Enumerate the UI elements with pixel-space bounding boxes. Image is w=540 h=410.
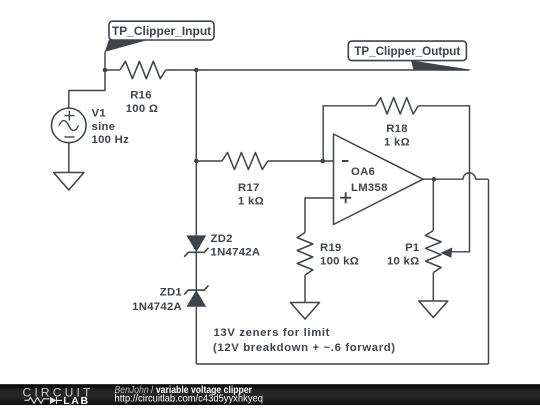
test point flag TP_Clipper_Input tail [105, 40, 149, 52]
svg-text:1N4742A: 1N4742A [211, 247, 261, 259]
wire top net to output flag [196, 69, 469, 71]
wire node to V1 top [69, 70, 105, 108]
wire R18 left lead down to inverting node [323, 106, 375, 161]
wire R16 right lead [166, 69, 197, 71]
svg-text:1 kΩ: 1 kΩ [238, 196, 264, 208]
wire R18 right lead down to P1 wiper [418, 106, 469, 252]
svg-text:OA6: OA6 [351, 166, 375, 178]
wire clip node down to ZD2 [195, 70, 197, 235]
wire ZD1 to bottom rail [195, 307, 197, 364]
svg-text:P1: P1 [405, 242, 419, 254]
potentiometer P1 wiper arrow [440, 248, 452, 258]
zener diode ZD2 cathode bar [184, 248, 208, 257]
resistor R18 [376, 98, 419, 114]
svg-text:R19: R19 [320, 242, 342, 254]
svg-text:R18: R18 [386, 123, 408, 135]
resistor R17 [222, 153, 268, 170]
voltage source V1 [52, 108, 87, 143]
svg-text:sine: sine [92, 121, 116, 133]
wire R17 right lead to inverting input [268, 160, 334, 162]
resistor R16 [120, 61, 166, 78]
wire non-inverting input to R19 [305, 198, 334, 233]
svg-text:100 Hz: 100 Hz [92, 134, 130, 146]
test point flag TP_Clipper_Input box [109, 21, 214, 40]
junction dot node op-amp output junction [432, 177, 437, 182]
ground under V1 [54, 173, 84, 191]
junction dot node input flag / R16 [103, 68, 108, 73]
wire op-amp output with hop over feedback [423, 173, 489, 179]
svg-text:V1: V1 [92, 107, 106, 119]
svg-text:TP_Clipper_Input: TP_Clipper_Input [112, 24, 211, 38]
svg-text:1N4742A: 1N4742A [132, 301, 182, 313]
svg-text:100 kΩ: 100 kΩ [320, 256, 359, 268]
svg-text:R17: R17 [238, 182, 260, 194]
CircuitLab logo resistor squiggle [25, 397, 50, 403]
V1 sine waveform mark [59, 121, 79, 131]
svg-text:LAB: LAB [63, 395, 89, 405]
svg-text:ZD2: ZD2 [211, 233, 233, 245]
wire right rail up to op-amp output [488, 179, 490, 364]
junction dot node inverting input junction [320, 159, 325, 164]
op-amp non-inverting input mark [340, 192, 351, 203]
svg-text:http://circuitlab.com/c43d5yyx: http://circuitlab.com/c43d5yyxhkyeq [115, 394, 264, 405]
potentiometer P1 [426, 231, 442, 273]
wire P1 top lead from output node [432, 179, 434, 230]
zener diode ZD2 body [186, 235, 206, 252]
wire R16 left lead [105, 69, 120, 71]
svg-text:(12V breakdown + ~.6 forward): (12V breakdown + ~.6 forward) [213, 342, 396, 354]
test point flag TP_Clipper_Output box [348, 41, 466, 61]
ground under R19 [291, 303, 320, 320]
V1 minus terminal mark [64, 136, 74, 138]
svg-text:TP_Clipper_Output: TP_Clipper_Output [354, 44, 460, 58]
svg-text:LM358: LM358 [351, 182, 388, 194]
svg-text:10 kΩ: 10 kΩ [387, 256, 420, 268]
zener diode ZD1 body [186, 290, 206, 307]
wire bottom rail [196, 363, 488, 365]
wire flag input tail to node [104, 52, 106, 71]
ground under P1 [419, 301, 448, 318]
test point flag TP_Clipper_Output tail [411, 60, 472, 70]
wire R17 left lead [196, 160, 222, 162]
junction dot node clipper output junction [194, 68, 199, 73]
svg-text:13V zeners for limit: 13V zeners for limit [214, 327, 331, 339]
svg-text:R16: R16 [130, 90, 152, 102]
wire P1 bottom lead [432, 273, 434, 302]
junction dot node R17 / zener junction [194, 159, 199, 164]
svg-text:100 Ω: 100 Ω [126, 103, 159, 115]
svg-text:ZD1: ZD1 [160, 287, 182, 299]
op-amp inverting input mark [342, 160, 348, 162]
wire V1 bottom to ground [68, 143, 70, 173]
zener diode ZD1 cathode bar [184, 286, 208, 295]
CircuitLab logo diode [50, 397, 57, 404]
wire R19 bottom lead [304, 275, 306, 303]
resistor R19 [297, 233, 313, 276]
V1 plus terminal mark [64, 111, 74, 121]
op-amp OA6 body [334, 134, 424, 225]
svg-text:1 kΩ: 1 kΩ [384, 136, 410, 148]
wire between zeners [195, 252, 197, 291]
